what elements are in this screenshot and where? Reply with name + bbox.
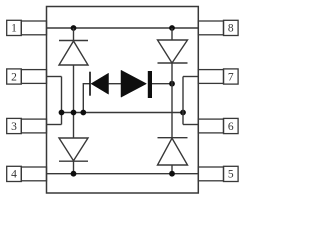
package body outline: [47, 7, 199, 194]
node: junction dot bottom rail / D3: [71, 171, 77, 177]
svg-text:5: 5: [228, 169, 234, 181]
pin 2 lead box: [21, 70, 46, 84]
svg-text:3: 3: [11, 121, 17, 133]
pin 8 small box: [224, 20, 239, 35]
diode D4 (bottom-right, cathode bar up): [158, 138, 188, 165]
wire: D4 anode to bottom rail: [171, 165, 173, 174]
pin 7 small box: [224, 69, 239, 84]
wire: right vertical bus pin7-pin6: [182, 77, 184, 125]
node: junction dot top rail / D1 cathode: [71, 25, 77, 31]
diode D1 (top-left, cathode bar up): [59, 41, 88, 66]
svg-text:1: 1: [11, 23, 17, 35]
svg-text:8: 8: [228, 23, 234, 35]
pin 6 lead box: [198, 119, 223, 133]
node: junction dot mid rail / left chain: [71, 110, 77, 116]
pin 2 small box: [7, 69, 22, 84]
pin 8 lead box: [198, 21, 223, 35]
wire: top rail pin1 to pin8: [47, 27, 199, 29]
diode D3 (bottom-left, cathode bar down): [59, 138, 88, 161]
wire: bottom rail pin4 to pin5: [47, 173, 199, 175]
wire: D1 anode down to mid rail and on to D3: [73, 65, 75, 138]
TVS Z2 right filled triangle (points right): [121, 70, 147, 97]
pin 7 lead box: [198, 70, 223, 84]
wire: D3 cathode to bottom rail: [73, 161, 75, 174]
svg-text:4: 4: [11, 169, 17, 181]
node: junction dot top rail / D2 anode: [169, 25, 175, 31]
TVS Z2 right thick cathode bar: [148, 71, 152, 98]
wire: pin 6 to right vertical bus: [183, 124, 198, 126]
wire: TVS left terminal elbow: [83, 84, 90, 113]
wire: TVS center link: [109, 83, 122, 85]
TVS Z1 left filled triangle (points left): [91, 73, 109, 94]
wire: pin 7 to right vertical bus: [183, 76, 198, 78]
node: junction dot TVS right / right chain: [169, 81, 175, 87]
TVS Z1 left cathode bar: [89, 72, 91, 96]
wire: pin 3 to vertical bus: [47, 124, 62, 126]
pin 5 lead box: [198, 167, 223, 181]
pin 4 lead box: [21, 167, 46, 181]
pin 1 lead box: [21, 21, 46, 35]
svg-text:7: 7: [228, 71, 234, 83]
wire: pin 2 to vertical bus: [47, 76, 62, 78]
svg-text:6: 6: [228, 121, 234, 133]
pin 5 small box: [224, 166, 239, 181]
wire: D2 cathode down through rail to D4: [171, 63, 173, 138]
wire: D1 cathode stub: [73, 28, 75, 41]
node: junction dot mid rail / right bus: [180, 110, 186, 116]
pin 4 small box: [7, 166, 22, 181]
diode D2 (top-right, cathode bar down): [158, 40, 188, 63]
wire: TVS right terminal to right chain: [152, 83, 172, 85]
wire: mid rail: [62, 112, 184, 114]
pin 6 small box: [224, 118, 239, 133]
wire: left vertical bus pin2-pin3: [61, 77, 63, 125]
node: junction dot mid rail / TVS left: [80, 110, 86, 116]
node: junction dot bottom rail / D4: [169, 171, 175, 177]
pin 1 small box: [7, 20, 22, 35]
pin 3 lead box: [21, 119, 46, 133]
svg-text:2: 2: [11, 71, 17, 83]
wire: D2 anode stub from top rail: [171, 28, 173, 40]
node: junction dot mid rail / left bus: [59, 110, 65, 116]
pin 3 small box: [7, 118, 22, 133]
